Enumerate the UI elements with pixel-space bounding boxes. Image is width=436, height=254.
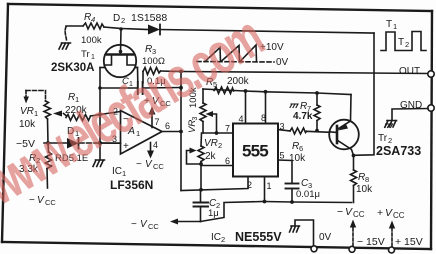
wire: collector to top rail bbox=[354, 33, 375, 155]
op-amp V- pin 4 bbox=[147, 143, 154, 159]
wire: pin1 to -Vcc return bbox=[170, 202, 265, 225]
labels -15V +15V bbox=[357, 236, 423, 248]
svg-text:V: V bbox=[145, 159, 153, 170]
label R1 220k bbox=[65, 92, 88, 116]
wire: bus to C1 bbox=[100, 87, 138, 89]
node: C1 bus tap bbox=[98, 86, 102, 90]
label R5 200k bbox=[206, 76, 250, 89]
resistor R1 bbox=[66, 115, 100, 121]
svg-text:+: + bbox=[377, 207, 383, 219]
label IC1 LF356N bbox=[110, 166, 153, 192]
svg-text:1: 1 bbox=[267, 181, 272, 191]
wire: pin 4 bbox=[245, 91, 247, 124]
svg-text:CC: CC bbox=[45, 198, 56, 207]
resistor R6 bbox=[290, 128, 307, 134]
GND terminal bbox=[385, 105, 434, 127]
wire: pin1 node to R8 bottom bbox=[265, 202, 352, 203]
svg-text:Tr: Tr bbox=[378, 133, 388, 144]
transistor Tr1 (JFET 2SK30A) bbox=[100, 29, 138, 77]
label +Vcc (op-amp) bbox=[144, 96, 171, 108]
svg-text:1: 1 bbox=[393, 22, 397, 31]
svg-text:0.01μ: 0.01μ bbox=[296, 189, 320, 200]
label D2 1S1588 bbox=[113, 12, 167, 25]
OUT terminal bbox=[428, 71, 434, 77]
op-amp A1 bbox=[121, 111, 163, 155]
svg-text:T: T bbox=[386, 19, 392, 30]
node: output bus top bbox=[179, 70, 183, 74]
wire: JFET right leg down to C1 bbox=[137, 68, 139, 83]
label -Vcc (R2) bbox=[29, 195, 56, 207]
node: JFET gate / D2 anode junction bbox=[119, 27, 123, 31]
node: collector bbox=[352, 154, 356, 158]
diode D1 (RD5.1E zener) bbox=[67, 138, 121, 149]
capacitor C1 bbox=[138, 82, 143, 94]
wire: inverting input bbox=[100, 112, 121, 115]
label IC2 NE555V bbox=[211, 230, 282, 244]
label C3 0.01u bbox=[296, 178, 320, 200]
-Vcc / +Vcc supply arrows bbox=[349, 220, 395, 254]
svg-text:3: 3 bbox=[280, 122, 285, 132]
label VR2 2k bbox=[204, 138, 222, 162]
svg-text:555: 555 bbox=[242, 142, 268, 161]
svg-text:VR: VR bbox=[187, 120, 198, 133]
svg-text:2k: 2k bbox=[205, 151, 217, 162]
svg-text:+ 15V: + 15V bbox=[395, 236, 423, 248]
svg-text:4: 4 bbox=[239, 114, 244, 124]
label D1 bbox=[67, 126, 79, 138]
label -5V bbox=[16, 138, 35, 150]
chassis tick (R7) bbox=[290, 104, 298, 108]
wire: -5V node bbox=[44, 142, 67, 144]
svg-text:6: 6 bbox=[299, 144, 303, 153]
square wave annotation T1 T2 bbox=[381, 32, 426, 51]
label -Vcc (op-amp) bbox=[136, 159, 164, 171]
svg-text:NE555V: NE555V bbox=[235, 230, 282, 244]
svg-text:8: 8 bbox=[261, 113, 266, 123]
potentiometer VR2 bbox=[187, 133, 205, 190]
capacitor C2 bbox=[194, 190, 209, 222]
labels -Vcc +Vcc bbox=[337, 206, 405, 220]
resistor R4 bbox=[65, 23, 121, 40]
label -Vcc (pin1) bbox=[131, 219, 159, 231]
svg-text:10k: 10k bbox=[356, 184, 373, 195]
diode D2 bbox=[121, 25, 374, 35]
svg-text:−: − bbox=[131, 219, 137, 230]
svg-text:1: 1 bbox=[122, 169, 126, 178]
resistor R5 bbox=[214, 87, 234, 94]
wire: op-amp output bbox=[162, 131, 181, 133]
svg-text:2SK30A: 2SK30A bbox=[51, 62, 94, 74]
svg-text:1S1588: 1S1588 bbox=[131, 12, 167, 24]
svg-text:Tr: Tr bbox=[81, 49, 90, 60]
svg-text:2: 2 bbox=[247, 180, 252, 190]
svg-text:7: 7 bbox=[225, 124, 230, 134]
svg-text:1: 1 bbox=[34, 109, 38, 118]
label VR3 100k (rotated) bbox=[187, 87, 199, 133]
svg-text:2: 2 bbox=[121, 16, 125, 25]
svg-text:VR: VR bbox=[20, 106, 34, 117]
wire: pin 1 bbox=[264, 177, 266, 202]
svg-text:0V: 0V bbox=[319, 232, 332, 243]
node: D1 / non-inverting input junction bbox=[98, 141, 102, 145]
potentiometer VR3 bbox=[200, 89, 217, 133]
node: R7 base junction bbox=[315, 129, 319, 133]
svg-text:5: 5 bbox=[280, 151, 285, 161]
svg-text:D: D bbox=[113, 13, 120, 24]
node: bus/C1 bbox=[179, 86, 183, 90]
svg-text:CC: CC bbox=[148, 222, 159, 231]
svg-text:6: 6 bbox=[225, 156, 230, 166]
resistor R3 bbox=[143, 68, 181, 84]
svg-text:2: 2 bbox=[221, 235, 225, 244]
label R7 4.7k bbox=[293, 101, 313, 122]
wire: output bus (vertical x=181) bbox=[180, 72, 182, 191]
node: -5V junction bbox=[46, 141, 50, 145]
svg-text:T: T bbox=[398, 37, 404, 48]
node: pin 8 rail junction bbox=[264, 90, 268, 94]
resistor R2 bbox=[46, 143, 52, 188]
svg-text:− 15V: − 15V bbox=[357, 236, 385, 248]
svg-text:IC: IC bbox=[112, 166, 122, 177]
svg-text:LF356N: LF356N bbox=[110, 178, 153, 192]
label R8 10k bbox=[356, 172, 373, 195]
svg-text:CC: CC bbox=[353, 210, 365, 219]
potentiometer VR1 bbox=[24, 91, 67, 144]
ground (below D1 node) bbox=[93, 160, 105, 167]
svg-text:−: − bbox=[337, 206, 343, 218]
resistor R7 bbox=[314, 91, 320, 130]
+Vcc rail bbox=[203, 89, 351, 95]
svg-text:V: V bbox=[140, 219, 148, 230]
resistor R8 bbox=[351, 156, 357, 203]
transistor Tr2 (2SA733 PNP) bbox=[329, 95, 359, 156]
svg-text:1: 1 bbox=[91, 54, 95, 61]
svg-text:GND: GND bbox=[400, 100, 422, 111]
svg-text:CC: CC bbox=[153, 162, 164, 171]
node: VR2 bottom junction bbox=[199, 162, 203, 166]
wire: pin 5 and capacitor C3 bbox=[278, 160, 299, 202]
svg-text:V: V bbox=[345, 206, 353, 218]
svg-text:4.7k: 4.7k bbox=[293, 111, 313, 122]
svg-text:1μ: 1μ bbox=[208, 208, 219, 219]
label R6 10k bbox=[289, 141, 306, 164]
svg-text:4: 4 bbox=[153, 140, 158, 150]
label C1 0.1u bbox=[122, 76, 166, 88]
svg-text:2: 2 bbox=[405, 40, 409, 49]
label R2 3.3k bbox=[19, 153, 40, 175]
wire: non-inverting input bbox=[100, 142, 121, 144]
svg-text:100k: 100k bbox=[81, 35, 102, 46]
wire: pin 8 bbox=[265, 92, 267, 124]
label R4 bbox=[84, 12, 95, 24]
node: bus/op-amp out bbox=[179, 130, 183, 134]
svg-text:OUT: OUT bbox=[399, 66, 420, 77]
label Tr1 bbox=[81, 49, 95, 61]
wire: pin 7 bbox=[203, 132, 233, 134]
ground (R4 left) bbox=[59, 43, 71, 49]
0V terminal assembly bbox=[290, 220, 318, 252]
svg-text:8: 8 bbox=[365, 175, 369, 184]
node: pin 4 rail junction bbox=[244, 89, 248, 93]
label VR1 10k bbox=[19, 106, 38, 130]
label C2 1u bbox=[208, 198, 220, 219]
svg-text:2SA733: 2SA733 bbox=[376, 144, 421, 158]
svg-text:4: 4 bbox=[91, 15, 95, 24]
svg-text:V: V bbox=[385, 207, 393, 219]
node: C2 tap bbox=[199, 188, 203, 192]
IC IC2 555 bbox=[233, 124, 278, 177]
wire: source bus (vertical x=100) bbox=[99, 68, 101, 161]
label R3 100ohm bbox=[142, 44, 165, 67]
chassis tick (Tr2) bbox=[385, 124, 393, 128]
wire: OUT line bbox=[181, 72, 429, 74]
svg-text:−: − bbox=[136, 159, 142, 170]
label Tr2 2SA733 bbox=[376, 133, 421, 158]
node: R1 / inverting input junction bbox=[98, 113, 102, 117]
node: VR3 wiper junction bbox=[215, 131, 219, 135]
svg-text:0V: 0V bbox=[276, 57, 289, 68]
svg-text:IC: IC bbox=[211, 232, 221, 243]
node: pin 1 junction bbox=[263, 200, 267, 204]
wire: pin 2 bbox=[181, 177, 248, 191]
op-amp V+ pin 7 bbox=[149, 107, 156, 128]
node: C3 bottom junction bbox=[290, 200, 294, 204]
svg-text:3: 3 bbox=[192, 117, 199, 121]
sawtooth waveform annotation bbox=[197, 45, 274, 62]
wire: pin 6 bbox=[201, 165, 233, 167]
wire: pin 3 bbox=[278, 130, 290, 132]
svg-text:VR: VR bbox=[204, 138, 218, 149]
svg-text:CC: CC bbox=[393, 211, 405, 220]
svg-text:2: 2 bbox=[218, 141, 222, 150]
label +10V / 0V bbox=[260, 42, 289, 68]
